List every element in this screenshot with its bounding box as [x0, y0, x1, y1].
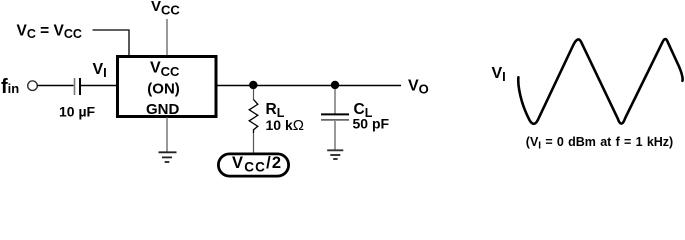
- svg-text:10 kΩ: 10 kΩ: [266, 117, 304, 134]
- svg-text:(ON): (ON): [147, 80, 180, 97]
- svg-text:VI: VI: [93, 61, 107, 80]
- svg-text:(VI = 0 dBm at f = 1 kHz): (VI = 0 dBm at f = 1 kHz): [526, 135, 673, 152]
- svg-text:50 pF: 50 pF: [353, 115, 390, 131]
- svg-text:VCC: VCC: [151, 0, 180, 17]
- svg-text:GND: GND: [146, 101, 180, 118]
- svg-text:fin: fin: [1, 76, 19, 98]
- svg-text:VI: VI: [492, 65, 506, 84]
- svg-text:10 µF: 10 µF: [59, 104, 96, 120]
- svg-text:VO: VO: [408, 77, 429, 96]
- svg-text:VC = VCC: VC = VCC: [17, 22, 82, 41]
